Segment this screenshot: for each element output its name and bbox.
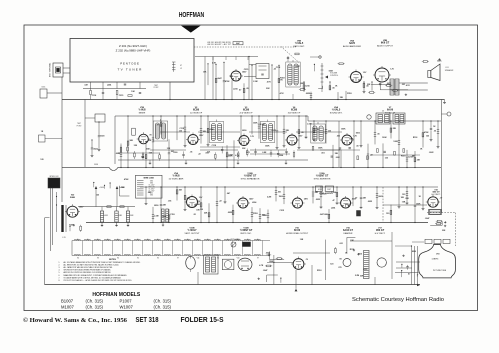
svg-text:.05: .05 <box>433 130 436 132</box>
svg-text:2.2M: 2.2M <box>253 81 258 83</box>
svg-text:CONTROL: CONTROL <box>330 75 338 77</box>
svg-text:½ 6SN7 GT: ½ 6SN7 GT <box>244 174 257 178</box>
svg-text:.05: .05 <box>377 133 380 135</box>
svg-text:POINT: POINT <box>154 87 159 89</box>
svg-text:SYNC SEPARATOR: SYNC SEPARATOR <box>241 177 260 180</box>
svg-text:1500: 1500 <box>322 194 326 196</box>
svg-text:.05: .05 <box>246 88 249 90</box>
svg-text:GND: GND <box>150 180 153 182</box>
svg-text:½ 6U8: ½ 6U8 <box>172 174 180 178</box>
svg-text:(Ch. 315): (Ch. 315) <box>154 304 172 309</box>
svg-text:C118: C118 <box>92 95 96 97</box>
svg-text:470K: 470K <box>124 178 129 181</box>
svg-text:5U4G: 5U4G <box>70 196 76 199</box>
svg-text:120: 120 <box>200 209 203 211</box>
svg-text:2.2M: 2.2M <box>307 123 312 125</box>
svg-text:FUSE: FUSE <box>94 164 98 166</box>
svg-text:270: 270 <box>197 201 200 203</box>
svg-text:INTERLOCK: INTERLOCK <box>49 176 59 178</box>
svg-text:6AV6: 6AV6 <box>349 42 355 45</box>
svg-text:6CB6: 6CB6 <box>291 109 298 112</box>
svg-text:47: 47 <box>239 88 241 91</box>
svg-text:6CB6: 6CB6 <box>243 109 250 112</box>
svg-text:SOUND IF: SOUND IF <box>385 112 396 114</box>
svg-text:C118: C118 <box>276 67 280 69</box>
svg-text:½ 6SN7 GT: ½ 6SN7 GT <box>240 228 253 232</box>
svg-text:C215: C215 <box>280 210 285 212</box>
svg-text:C215: C215 <box>119 95 124 97</box>
svg-text:.0022: .0022 <box>305 93 310 95</box>
svg-text:+140V: +140V <box>99 187 105 189</box>
svg-text:.0022: .0022 <box>115 153 120 155</box>
svg-text:47: 47 <box>355 197 357 200</box>
svg-text:.22: .22 <box>370 154 373 156</box>
svg-text:C215: C215 <box>244 69 249 71</box>
svg-text:120: 120 <box>385 158 388 160</box>
svg-text:120: 120 <box>96 195 99 197</box>
svg-text:½ 6AL5: ½ 6AL5 <box>295 41 304 45</box>
svg-text:150K: 150K <box>349 139 354 141</box>
svg-text:100K: 100K <box>318 148 323 150</box>
svg-text:V10: V10 <box>237 258 240 260</box>
svg-text:FOLDER 15-S: FOLDER 15-S <box>181 315 224 324</box>
svg-text:8200: 8200 <box>154 205 158 207</box>
svg-text:NOTES: NOTES <box>109 259 117 261</box>
svg-text:CONT: CONT <box>327 189 331 191</box>
svg-text:GND: GND <box>150 195 153 197</box>
svg-text:120: 120 <box>426 136 429 138</box>
svg-text:POINT: POINT <box>77 125 82 127</box>
svg-text:6CU6: 6CU6 <box>294 229 301 232</box>
svg-text:P1007: P1007 <box>120 298 133 303</box>
svg-text:W1007: W1007 <box>120 304 134 309</box>
svg-text:M1007: M1007 <box>61 304 74 309</box>
svg-text:.22: .22 <box>219 201 222 203</box>
svg-text:.047: .047 <box>320 213 324 216</box>
svg-text:47: 47 <box>157 124 159 127</box>
svg-text:47: 47 <box>408 272 410 275</box>
svg-text:.0022: .0022 <box>378 196 383 198</box>
svg-text:.0022: .0022 <box>315 199 320 201</box>
svg-text:.0022: .0022 <box>93 148 98 150</box>
svg-text:.0022: .0022 <box>227 212 232 214</box>
svg-text:.0047: .0047 <box>295 65 300 68</box>
svg-text:470K: 470K <box>424 131 429 134</box>
svg-text:.001: .001 <box>321 153 325 155</box>
svg-text:HORIZONTAL OUTPUT: HORIZONTAL OUTPUT <box>286 232 309 235</box>
svg-text:R118: R118 <box>413 137 417 139</box>
svg-text:AUDIO OUTPUT: AUDIO OUTPUT <box>377 44 393 47</box>
svg-text:8200: 8200 <box>301 83 305 85</box>
svg-text:VERT. OUTPUT: VERT. OUTPUT <box>185 233 201 235</box>
svg-text:HOLD: HOLD <box>318 189 322 191</box>
svg-text:R118: R118 <box>253 213 257 215</box>
svg-text:ANT. TERMINAL: ANT. TERMINAL <box>49 63 52 77</box>
svg-text:1500: 1500 <box>356 133 360 135</box>
svg-text:100K: 100K <box>437 60 442 62</box>
svg-text:80MF: 80MF <box>118 215 122 217</box>
svg-text:1500: 1500 <box>279 196 283 198</box>
svg-text:150K: 150K <box>228 156 233 158</box>
svg-text:C118: C118 <box>170 214 174 216</box>
svg-text:150K: 150K <box>195 204 200 206</box>
svg-text:6.8K: 6.8K <box>336 157 341 159</box>
svg-text:6AX4 GT: 6AX4 GT <box>343 229 354 232</box>
svg-text:.001: .001 <box>336 136 340 138</box>
svg-text:R118: R118 <box>317 270 321 272</box>
svg-text:.05: .05 <box>301 132 304 134</box>
svg-text:47: 47 <box>180 65 182 67</box>
svg-text:DAMPER: DAMPER <box>344 232 353 235</box>
svg-text:C215: C215 <box>363 269 368 271</box>
svg-text:B201: B201 <box>42 87 46 89</box>
svg-text:.001: .001 <box>170 151 174 153</box>
svg-text:2.2M: 2.2M <box>154 215 159 217</box>
svg-text:270: 270 <box>338 267 341 269</box>
svg-text:TV TUNER: TV TUNER <box>117 68 142 72</box>
svg-text:.001: .001 <box>277 191 281 193</box>
svg-text:V19: V19 <box>436 253 439 255</box>
svg-text:.047: .047 <box>84 84 88 87</box>
svg-text:120: 120 <box>179 131 182 133</box>
svg-text:150K: 150K <box>253 122 258 124</box>
svg-text:Schematic Courtesy Hoffman Rad: Schematic Courtesy Hoffman Radio <box>352 297 444 303</box>
svg-text:V7: V7 <box>177 258 179 260</box>
svg-text:4.7K: 4.7K <box>267 80 272 83</box>
svg-text:2nd VIDEO IF: 2nd VIDEO IF <box>240 112 254 114</box>
svg-text:SET 318: SET 318 <box>136 315 159 324</box>
svg-text:.0047: .0047 <box>263 269 268 272</box>
svg-text:VERT. HOLD: VERT. HOLD <box>230 239 240 241</box>
svg-text:4.7K: 4.7K <box>406 84 411 87</box>
svg-text:120: 120 <box>328 130 331 132</box>
svg-text:120: 120 <box>330 264 333 266</box>
svg-text:4.7K: 4.7K <box>212 62 217 65</box>
svg-text:C118: C118 <box>212 145 216 147</box>
svg-text:.001: .001 <box>339 243 343 245</box>
svg-text:.047: .047 <box>147 191 151 194</box>
svg-text:.001: .001 <box>207 151 211 153</box>
svg-text:PICTURE TUBE: PICTURE TUBE <box>433 270 447 272</box>
svg-text:.05: .05 <box>190 151 193 153</box>
svg-text:SPEAKER: SPEAKER <box>445 69 454 72</box>
svg-text:.22: .22 <box>193 214 196 216</box>
svg-text:120: 120 <box>402 194 405 196</box>
svg-text:RATIO DET.: RATIO DET. <box>293 45 305 48</box>
svg-text:C215: C215 <box>271 130 276 132</box>
svg-text:V3: V3 <box>97 258 99 260</box>
svg-text:© Howard W. Sams & Co., Inc. 1: © Howard W. Sams & Co., Inc. 1956 <box>23 317 127 324</box>
svg-text:6AU6: 6AU6 <box>387 109 394 112</box>
svg-text:2.2M: 2.2M <box>355 275 360 277</box>
svg-text:V2: V2 <box>137 258 139 260</box>
svg-text:H.V. RECT.: H.V. RECT. <box>431 194 441 196</box>
svg-text:1500: 1500 <box>100 135 104 137</box>
svg-text:½ 6SN7 GT: ½ 6SN7 GT <box>316 174 329 178</box>
svg-text:(Ch. 315): (Ch. 315) <box>86 298 104 303</box>
svg-text:TEST: TEST <box>77 123 81 125</box>
svg-text:.22: .22 <box>198 153 201 155</box>
svg-text:.001: .001 <box>402 84 406 86</box>
svg-text:½ 6U8: ½ 6U8 <box>138 108 146 112</box>
svg-text:1st VIDEO IF: 1st VIDEO IF <box>190 111 203 114</box>
svg-text:.05: .05 <box>356 145 359 147</box>
svg-text:V4: V4 <box>77 258 79 260</box>
svg-text:470K: 470K <box>225 80 230 83</box>
svg-text:100K: 100K <box>393 141 398 143</box>
svg-text:B1007: B1007 <box>61 298 74 303</box>
svg-text:Z 202 (No.9880-UHF-VHF): Z 202 (No.9880-UHF-VHF) <box>116 49 151 53</box>
svg-text:TEST: TEST <box>154 85 158 87</box>
svg-text:100K: 100K <box>323 214 328 216</box>
svg-text:½ 6CG7: ½ 6CG7 <box>188 228 198 232</box>
svg-text:6K6 GT: 6K6 GT <box>381 42 390 45</box>
svg-text:V4: V4 <box>117 258 119 260</box>
svg-text:.0047: .0047 <box>146 148 151 151</box>
svg-text:.001: .001 <box>246 152 250 154</box>
svg-text:8200: 8200 <box>346 204 350 206</box>
svg-text:R118: R118 <box>350 249 354 251</box>
svg-text:1B3 GT: 1B3 GT <box>376 229 385 232</box>
svg-text:3rd VIDEO IF: 3rd VIDEO IF <box>288 111 301 114</box>
svg-text:V11: V11 <box>197 258 200 260</box>
svg-text:Z3: Z3 <box>382 111 384 113</box>
svg-text:150K: 150K <box>262 215 267 217</box>
svg-text:150K: 150K <box>265 146 270 148</box>
svg-text:100K: 100K <box>341 128 346 130</box>
svg-text:4.7K: 4.7K <box>280 92 285 95</box>
svg-text:C215: C215 <box>305 86 310 88</box>
svg-text:.0047: .0047 <box>425 217 430 220</box>
svg-text:1st VIDEO AMP.: 1st VIDEO AMP. <box>168 177 184 180</box>
svg-text:47: 47 <box>332 199 334 202</box>
svg-text:120: 120 <box>386 213 389 215</box>
svg-text:VERT. OSC.: VERT. OSC. <box>240 233 252 235</box>
svg-text:150K: 150K <box>269 261 274 263</box>
svg-text:8200: 8200 <box>242 130 246 132</box>
svg-text:6CB6: 6CB6 <box>193 109 200 112</box>
svg-text:SYNC INVERTER: SYNC INVERTER <box>314 178 331 180</box>
svg-text:.0022: .0022 <box>429 152 434 154</box>
svg-text:2.2M: 2.2M <box>260 124 265 126</box>
svg-text:AUDIO AMPLIFIER: AUDIO AMPLIFIER <box>343 45 362 48</box>
svg-text:HOFFMAN MODELS: HOFFMAN MODELS <box>92 292 140 298</box>
svg-text:.0022: .0022 <box>367 201 372 203</box>
svg-text:(Ch. 315): (Ch. 315) <box>86 304 104 309</box>
svg-text:120: 120 <box>40 159 43 161</box>
svg-text:C215: C215 <box>408 157 413 159</box>
svg-text:4.7K: 4.7K <box>235 154 240 157</box>
svg-text:SOUND DET.: SOUND DET. <box>330 112 343 114</box>
svg-text:2.2M: 2.2M <box>267 196 272 198</box>
svg-text:150K: 150K <box>416 204 421 206</box>
svg-text:40MF: 40MF <box>130 215 134 217</box>
svg-text:150K: 150K <box>329 71 334 73</box>
svg-text:GND: GND <box>150 182 153 184</box>
svg-text:HOFFMAN: HOFFMAN <box>179 12 205 19</box>
svg-text:H.V. RECT.: H.V. RECT. <box>375 233 386 235</box>
svg-text:B+ 140V: B+ 140V <box>149 185 155 187</box>
svg-text:8200: 8200 <box>412 251 416 253</box>
svg-text:270: 270 <box>280 80 283 82</box>
svg-text:17AVP4: 17AVP4 <box>432 258 439 261</box>
svg-text:1500: 1500 <box>358 253 362 255</box>
svg-text:Z 201 (No.9027-UHF): Z 201 (No.9027-UHF) <box>119 44 147 48</box>
svg-text:WIRE CODE: WIRE CODE <box>144 177 155 179</box>
svg-text:LS1: LS1 <box>445 67 448 69</box>
svg-text:100MF: 100MF <box>103 215 108 217</box>
svg-text:V5: V5 <box>157 258 159 260</box>
svg-text:.001: .001 <box>168 201 172 203</box>
svg-text:L2: L2 <box>180 68 182 70</box>
svg-text:R118: R118 <box>401 156 405 158</box>
svg-text:(Ch. 315): (Ch. 315) <box>154 298 172 303</box>
svg-text:B+ 285V: B+ 285V <box>149 189 155 191</box>
svg-text:½ 6AL5: ½ 6AL5 <box>332 108 341 112</box>
svg-text:100K: 100K <box>382 137 387 139</box>
svg-text:.0047: .0047 <box>217 77 222 80</box>
svg-text:.047: .047 <box>226 192 230 195</box>
svg-text:C118: C118 <box>315 129 319 131</box>
svg-text:MIXER: MIXER <box>139 112 146 114</box>
svg-text:C118: C118 <box>179 128 183 130</box>
svg-text:R118: R118 <box>347 93 351 95</box>
svg-text:PENTODE: PENTODE <box>120 62 140 66</box>
svg-text:4.7K: 4.7K <box>259 264 264 267</box>
svg-text:V7: V7 <box>257 258 259 260</box>
